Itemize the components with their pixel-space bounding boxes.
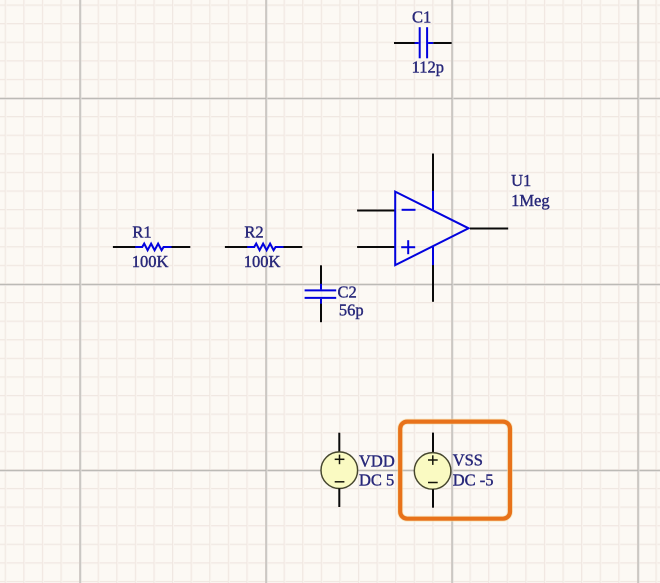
op-amp U1: [395, 191, 468, 266]
wire: [394, 42, 415, 44]
wire: [320, 304, 322, 323]
wire: [113, 246, 136, 248]
svg-text:VSS: VSS: [453, 451, 483, 470]
wire: [432, 433, 434, 453]
selection box around VSS source: [400, 422, 510, 519]
wire: [470, 228, 508, 230]
svg-text:R2: R2: [244, 223, 263, 242]
wire: [357, 210, 395, 212]
svg-text:U1: U1: [511, 171, 531, 190]
svg-text:112p: 112p: [412, 57, 444, 76]
wire: [338, 433, 340, 453]
resistor R2: [247, 244, 283, 251]
wire: [172, 246, 191, 248]
wire: [432, 265, 434, 302]
capacitor C2: [305, 284, 337, 304]
svg-text:1Meg: 1Meg: [511, 191, 549, 210]
wire: [320, 265, 322, 284]
svg-text:DC 5: DC 5: [359, 471, 394, 490]
svg-text:R1: R1: [132, 223, 151, 242]
svg-text:C1: C1: [412, 7, 431, 26]
wire: [225, 246, 248, 248]
svg-text:100K: 100K: [132, 252, 169, 271]
wire: [432, 154, 434, 192]
svg-text:DC -5: DC -5: [453, 471, 494, 490]
wire: [432, 489, 434, 508]
svg-text:C2: C2: [338, 283, 357, 302]
wire: [338, 488, 340, 507]
svg-text:56p: 56p: [339, 301, 364, 320]
capacitor C1: [415, 27, 434, 58]
svg-text:100K: 100K: [244, 252, 281, 271]
voltage source VSS: [414, 453, 451, 490]
svg-text:VDD: VDD: [359, 451, 395, 470]
wire: [433, 42, 451, 44]
resistor R1: [135, 244, 171, 251]
voltage source VDD: [321, 452, 358, 489]
wire: [357, 246, 395, 248]
wire: [284, 246, 303, 248]
